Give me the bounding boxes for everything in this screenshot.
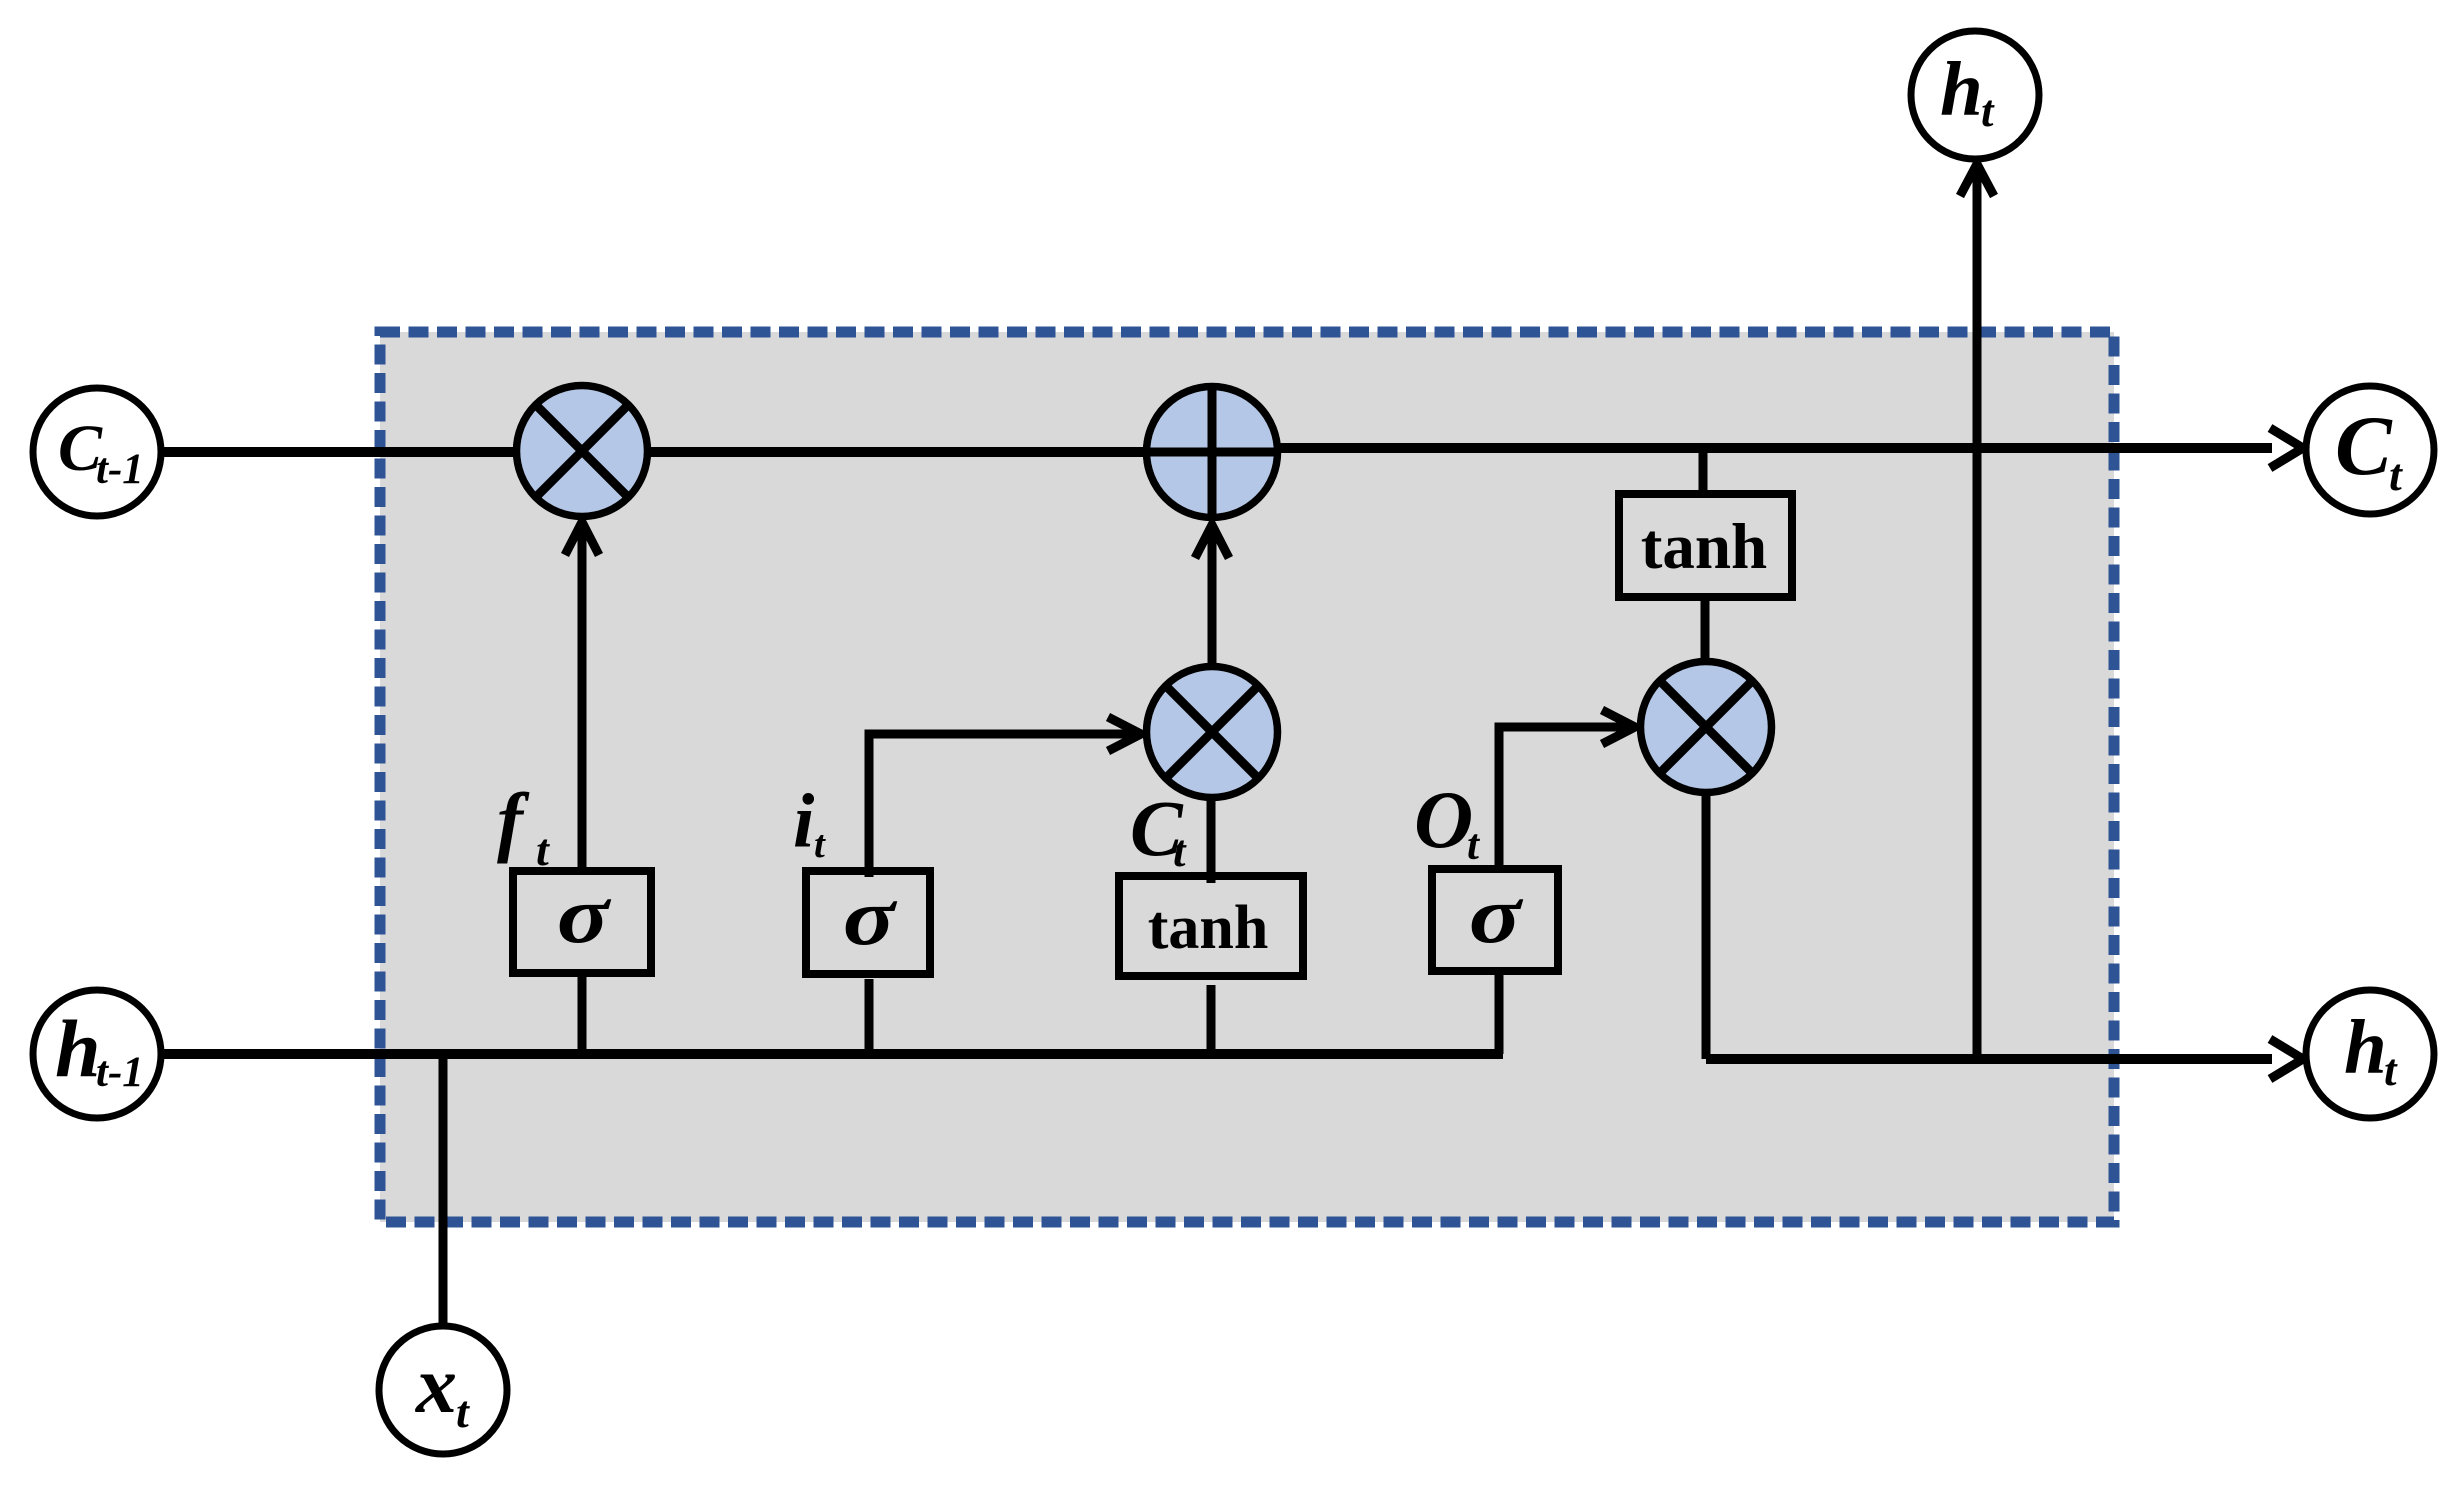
wire x_t stem — [439, 1050, 448, 1323]
svg-text:t: t — [456, 1386, 470, 1437]
svg-text:O: O — [1414, 774, 1473, 865]
svg-text:x: x — [415, 1339, 457, 1430]
wire candidate tanh up stem — [1207, 801, 1216, 883]
wire candidate tanh down stem — [1207, 985, 1216, 1054]
svg-text:h: h — [1940, 46, 1983, 132]
arrowhead into h_t right — [2270, 1039, 2303, 1079]
wire O gate down stem — [1495, 970, 1504, 1054]
wire h-line right: mul3 output to h_t — [1706, 1054, 2272, 1064]
wire f gate down stem — [578, 973, 587, 1054]
multiply op mul3 (output gate product) — [1641, 662, 1772, 793]
tanh box (cell output) — [1619, 494, 1792, 597]
node h_t top — [1911, 31, 2039, 159]
sigma box 2 (input gate) — [806, 871, 930, 974]
svg-text:t-1: t-1 — [96, 1049, 144, 1096]
node x_t — [379, 1326, 507, 1454]
multiply op mul2 (input gate product) — [1147, 667, 1278, 798]
wire i gate down stem — [865, 979, 874, 1054]
svg-text:σ: σ — [843, 872, 898, 963]
wire C-line to tanh stub — [1699, 448, 1708, 494]
wire f gate up-arrow into mul1 — [578, 527, 587, 871]
svg-text:σ: σ — [557, 870, 612, 961]
node C_t — [2306, 386, 2434, 514]
wire O gate elbow into mul3 — [1499, 727, 1630, 870]
svg-text:C: C — [2335, 399, 2393, 493]
multiply op mul1 (forget gate product) — [517, 386, 648, 517]
sigma box 1 (forget gate) — [513, 871, 651, 973]
svg-text:t: t — [1467, 822, 1481, 869]
svg-text:t-1: t-1 — [96, 446, 144, 493]
add op (cell state sum) — [1147, 387, 1278, 518]
svg-text:t: t — [2389, 449, 2403, 500]
svg-text:i: i — [793, 778, 815, 864]
svg-text:σ: σ — [1469, 870, 1524, 961]
arrowhead into C_t — [2270, 428, 2303, 468]
wire tanh to mul3 — [1701, 597, 1710, 660]
LSTM cell body (gray fill with blue dashed border) — [380, 332, 2114, 1222]
svg-text:tanh: tanh — [1148, 894, 1269, 962]
svg-text:t: t — [814, 823, 826, 866]
svg-text:t: t — [536, 824, 550, 875]
svg-text:t: t — [2384, 1045, 2398, 1095]
svg-text:h: h — [55, 1003, 101, 1094]
svg-text:tanh: tanh — [1641, 511, 1767, 583]
svg-text:h: h — [2344, 1004, 2387, 1090]
wire h-line left: h_{t-1} to O_t junction — [160, 1049, 1503, 1059]
svg-text:t: t — [1981, 86, 1995, 136]
tanh box (candidate) — [1119, 876, 1303, 976]
wire i gate elbow into mul2 — [869, 734, 1136, 877]
node h_{t-1} — [33, 990, 161, 1118]
wire C-line right segment — [1212, 443, 2272, 453]
wire mul2 to add arrow — [1208, 531, 1217, 663]
node h_t right — [2306, 990, 2434, 1118]
wire C-line: C_{t-1} to C_t — [160, 447, 1212, 457]
svg-text:t: t — [1173, 826, 1187, 876]
wire h_t top branch arrow — [1973, 169, 1982, 1059]
sigma box 3 (output gate) — [1432, 869, 1558, 971]
wire mul3 down stem — [1702, 796, 1711, 1059]
node C_{t-1} — [33, 388, 161, 516]
